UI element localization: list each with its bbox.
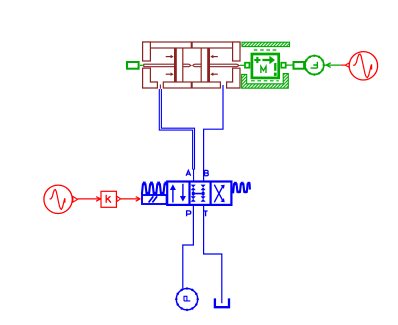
cylinder bottom bar <box>163 82 220 88</box>
left rod <box>144 64 174 67</box>
mass body box M <box>252 54 279 78</box>
left bottom port stub <box>159 85 161 89</box>
exclamation mark <box>274 63 276 71</box>
signal wire source to gain <box>78 197 101 202</box>
signal source left (sine) <box>44 185 78 213</box>
valve body <box>167 182 231 205</box>
left chamber arrow upper <box>166 56 171 58</box>
red wire segment <box>341 64 345 66</box>
left chamber arrow lower <box>166 73 171 75</box>
signal arrow into force source <box>324 63 341 68</box>
position 1 parallel arrows <box>172 190 174 203</box>
source circle <box>349 52 377 80</box>
gain output triangle <box>117 196 121 201</box>
output triangle port <box>345 63 349 67</box>
label B <box>205 170 209 175</box>
cylinder left wall upper <box>143 42 151 61</box>
right piston <box>207 48 210 82</box>
cylinder top bar <box>143 42 240 48</box>
position 2 closed center <box>191 185 206 202</box>
link line port to rod <box>140 64 144 66</box>
middle rod coupling <box>183 64 201 67</box>
label P <box>187 211 191 216</box>
tank symbol <box>215 298 229 307</box>
hydraulic cylinder (dual jack) body <box>143 42 240 89</box>
pipe valve P to pressure source <box>183 205 194 289</box>
gain block k <box>101 191 121 207</box>
solenoid box <box>142 195 167 204</box>
label A <box>186 170 191 175</box>
pressure source circle <box>175 287 199 311</box>
middle chamber right wall <box>200 48 202 82</box>
upper dashed contact line <box>254 49 279 51</box>
letter M <box>261 66 266 73</box>
mass left pin <box>245 63 249 68</box>
left piston <box>174 48 177 82</box>
right rod <box>210 64 239 67</box>
signal wire gain to valve <box>121 197 141 202</box>
force source F circle U-F <box>304 55 325 76</box>
plus sign <box>254 57 260 63</box>
left spring <box>142 184 167 194</box>
cylinder right wall upper <box>233 42 240 61</box>
sine curve <box>50 190 65 210</box>
lower dashed contact line <box>251 80 279 82</box>
middle chamber left wall <box>182 48 184 82</box>
signal source right (sine) <box>341 52 378 80</box>
pipe cylinder right port to valve B <box>204 85 223 182</box>
wire rod tip to mass <box>240 64 245 66</box>
right spring <box>231 184 250 192</box>
top guide hatched bar <box>242 42 290 46</box>
output triangle port <box>73 197 78 203</box>
direction arrow <box>262 59 270 61</box>
mass right pin <box>281 63 285 68</box>
cylinder right wall lower with foot <box>227 68 240 88</box>
right spring attachment tab <box>232 188 234 194</box>
cylinder bottom center divider <box>191 82 193 88</box>
bottom guide hatched channel <box>242 74 289 89</box>
servo valve 4/3 proportional <box>142 170 250 216</box>
cylinder left wall lower with foot <box>143 68 158 88</box>
rotated F glyph <box>311 62 318 68</box>
green mechanical port left of cylinder <box>127 62 144 69</box>
mass block with friction and end stops <box>242 42 290 88</box>
sine curve <box>353 54 371 78</box>
right chamber arrow upper <box>213 56 218 58</box>
label T <box>204 211 208 216</box>
position 3 crossed arrows <box>214 186 223 202</box>
green mechanical port right <box>294 62 305 69</box>
pipe cylinder left port to valve A (double line) <box>159 89 194 182</box>
pipe valve T to tank <box>204 205 222 303</box>
right chamber arrow lower <box>213 73 218 75</box>
cylinder top center divider <box>191 42 193 48</box>
wire mass to force port <box>286 64 294 66</box>
